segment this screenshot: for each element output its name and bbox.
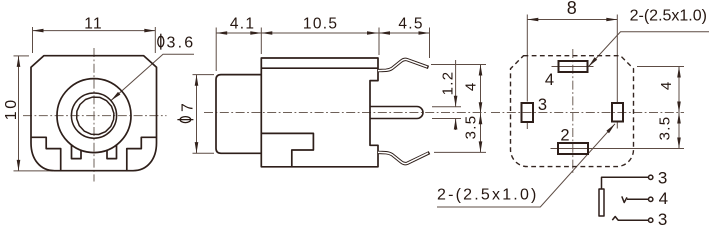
svg-text:2-(2.5x1.0): 2-(2.5x1.0) (630, 7, 707, 24)
svg-text:3: 3 (658, 210, 667, 225)
svg-text:10: 10 (3, 97, 20, 120)
svg-text:2-(2.5x1.0): 2-(2.5x1.0) (437, 187, 539, 204)
svg-text:11: 11 (84, 16, 103, 33)
svg-text:3: 3 (658, 169, 667, 188)
svg-text:3.5: 3.5 (657, 116, 674, 141)
svg-text:4.5: 4.5 (398, 16, 423, 33)
svg-text:8: 8 (567, 0, 577, 18)
svg-text:3.5: 3.5 (463, 115, 480, 140)
svg-text:4.1: 4.1 (230, 16, 255, 33)
svg-text:2: 2 (560, 127, 569, 145)
svg-text:4: 4 (658, 82, 675, 90)
svg-text:4: 4 (462, 83, 479, 91)
svg-text:3: 3 (538, 96, 547, 114)
svg-text:4: 4 (659, 189, 668, 208)
svg-text:1.2: 1.2 (440, 71, 457, 96)
svg-text:10.5: 10.5 (303, 16, 338, 33)
svg-text:4: 4 (545, 71, 554, 89)
svg-text:3.6: 3.6 (167, 35, 196, 52)
svg-text:7: 7 (179, 103, 196, 112)
